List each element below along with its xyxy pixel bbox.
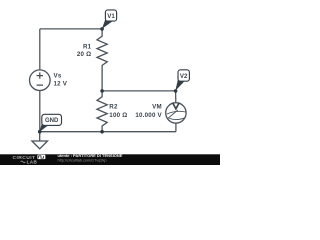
resistor R2	[97, 91, 107, 132]
svg-text:R1: R1	[83, 43, 92, 50]
value label VM 10.000 V	[135, 103, 162, 119]
svg-text:10.000 V: 10.000 V	[135, 112, 162, 119]
svg-text:V1: V1	[107, 13, 115, 20]
footer bar	[0, 154, 220, 165]
svg-text:20 Ω: 20 Ω	[77, 51, 91, 58]
svg-text:VM: VM	[152, 103, 162, 110]
wire: top rail horizontal	[40, 28, 102, 30]
node V1	[102, 10, 117, 29]
svg-text:LAB: LAB	[27, 159, 38, 164]
svg-text:GND: GND	[45, 118, 59, 124]
wire: middle rail horizontal	[102, 90, 176, 92]
junction: R1 / R2 / middle rail	[100, 89, 104, 93]
junction: top rail / R1 / V1	[100, 27, 104, 31]
voltage source Vs	[30, 70, 51, 91]
footer logo CIRCUIT LAB	[13, 155, 46, 165]
svg-text:http://circuitlab.com/c/7vq2kp: http://circuitlab.com/c/7vq2kp	[58, 159, 107, 163]
wire: voltmeter top stub	[175, 91, 177, 103]
node GND	[40, 114, 62, 131]
resistor R1	[97, 29, 107, 91]
svg-text:100 Ω: 100 Ω	[109, 112, 127, 119]
junction: bottom rail / ground / GND flag	[38, 130, 42, 134]
wire: voltmeter bottom stub	[175, 123, 177, 132]
wire: left vertical (top rail corner down to ground junction)	[39, 29, 41, 132]
svg-text:12 V: 12 V	[54, 81, 68, 88]
value label R1 20 Ω	[77, 43, 92, 58]
footer caption text	[58, 153, 123, 163]
junction: R2 / bottom rail	[100, 130, 104, 134]
value label Vs 12 V	[54, 73, 68, 88]
svg-text:R2: R2	[109, 103, 118, 110]
ground	[32, 132, 48, 149]
svg-text:utente : PARTITORE DI TENSIONE: utente : PARTITORE DI TENSIONE	[58, 153, 123, 158]
node V2	[175, 70, 189, 91]
voltmeter VM	[166, 103, 187, 124]
value label R2 100 Ω	[109, 103, 127, 119]
svg-text:V2: V2	[180, 73, 188, 80]
wire: bottom rail horizontal	[40, 131, 176, 133]
svg-text:Vs: Vs	[54, 73, 62, 80]
junction: middle rail / voltmeter / V2	[174, 89, 178, 93]
